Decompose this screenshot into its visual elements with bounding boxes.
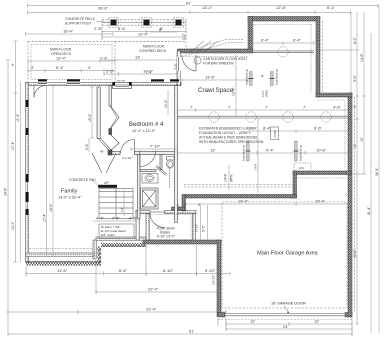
svg-text:24': 24' xyxy=(283,324,288,329)
svg-text:ESTIMATED ENGINEERED LUMBER: ESTIMATED ENGINEERED LUMBER xyxy=(199,127,257,131)
step left garage xyxy=(182,195,186,212)
svg-text:16'-4": 16'-4" xyxy=(63,29,74,34)
svg-text:15'-6": 15'-6" xyxy=(88,113,92,122)
dim row y43 xyxy=(253,42,315,44)
svg-text:Bedroom # 4: Bedroom # 4 xyxy=(129,122,164,128)
extension lines xyxy=(25,266,27,276)
wall y237 x96-146 (light) xyxy=(96,237,146,240)
load bearing beams xyxy=(247,72,298,162)
dim row y80 xyxy=(182,79,248,81)
left wall black dash segments xyxy=(26,100,28,215)
top wall family+bedroom (light) xyxy=(26,82,182,85)
svg-text:10'-4": 10'-4" xyxy=(315,199,326,204)
svg-text:2'-6": 2'-6" xyxy=(106,69,115,74)
svg-text:14'-8": 14'-8" xyxy=(360,53,364,62)
svg-text:11'-4": 11'-4" xyxy=(16,113,20,122)
porch left wall xyxy=(136,211,139,241)
svg-text:23'-4": 23'-4" xyxy=(146,307,157,312)
svg-text:12'-2" x 12'-0": 12'-2" x 12'-0" xyxy=(132,129,156,133)
family bottom wall (light) xyxy=(26,253,97,256)
sink vanity xyxy=(142,174,158,184)
svg-text:CANTILEVER FLOOR JOIST: CANTILEVER FLOOR JOIST xyxy=(203,57,247,61)
svg-text:13'-10": 13'-10" xyxy=(212,274,216,285)
inner dashed outline xyxy=(222,202,347,308)
svg-text:12': 12' xyxy=(250,319,255,324)
svg-text:6'-4": 6'-4" xyxy=(56,65,65,70)
svg-text:4': 4' xyxy=(88,65,91,70)
row 23'-4" xyxy=(8,311,226,313)
shelter left wall xyxy=(146,214,149,241)
concrete hatch bands xyxy=(26,243,146,266)
step wall y171 xyxy=(293,171,351,175)
dim row y110 xyxy=(178,109,352,111)
windows (white gap + bar) xyxy=(26,57,181,209)
left wall family (light) xyxy=(26,82,29,262)
svg-text:3'-2": 3'-2" xyxy=(182,32,186,40)
svg-text:UP: UP xyxy=(104,181,109,185)
svg-text:17'-4": 17'-4" xyxy=(11,141,15,150)
svg-text:16' GARAGE DOOR: 16' GARAGE DOOR xyxy=(271,302,306,306)
garage left wall xyxy=(217,240,221,317)
svg-text:PLBR: PLBR xyxy=(273,130,277,137)
svg-text:FOUNDATION LAYOUT - VERIFY: FOUNDATION LAYOUT - VERIFY xyxy=(199,131,251,135)
dotted inner offsets xyxy=(254,24,314,26)
svg-text:4': 4' xyxy=(353,105,357,108)
svg-text:16'-6": 16'-6" xyxy=(49,203,53,212)
svg-text:7': 7' xyxy=(303,105,306,110)
covered deck outline xyxy=(102,19,186,21)
support post 1 xyxy=(111,20,117,26)
wall y93 x316-352 xyxy=(316,93,352,97)
wall x137.5 stairs/bath xyxy=(138,155,141,220)
svg-text:MAIN FLOOR: MAIN FLOOR xyxy=(50,48,72,52)
svg-text:15': 15' xyxy=(360,137,364,142)
svg-text:6'-10" x 5'-2": 6'-10" x 5'-2" xyxy=(157,235,175,239)
svg-text:10'-6": 10'-6" xyxy=(316,148,327,153)
svg-text:12': 12' xyxy=(314,319,319,324)
svg-text:9PW: 9PW xyxy=(230,174,234,182)
svg-text:12'-2": 12'-2" xyxy=(164,99,168,108)
svg-text:7': 7' xyxy=(190,105,193,110)
bath angled wall xyxy=(156,167,166,175)
svg-text:load bearing: load bearing xyxy=(299,145,303,161)
svg-text:2': 2' xyxy=(184,202,187,207)
svg-text:3'-6": 3'-6" xyxy=(120,207,124,212)
svg-text:6'-4": 6'-4" xyxy=(261,38,270,43)
covered deck dims xyxy=(102,31,186,33)
svg-text:Main Floor Garage Area: Main Floor Garage Area xyxy=(257,251,319,257)
svg-text:CONCRETE PAD: CONCRETE PAD xyxy=(69,178,96,182)
porch door xyxy=(150,211,165,213)
svg-text:9'-6": 9'-6" xyxy=(314,126,323,131)
vert dim x258 xyxy=(257,118,259,193)
crawl box right wall xyxy=(316,17,320,98)
svg-text:4'-6": 4'-6" xyxy=(129,216,138,221)
svg-text:9'-4": 9'-4" xyxy=(266,148,275,153)
support post 2 xyxy=(144,20,150,26)
svg-text:4'-6": 4'-6" xyxy=(112,216,121,221)
wall x177 y51-85 (light) xyxy=(177,51,180,86)
svg-text:1'-4": 1'-4" xyxy=(146,71,152,75)
main beam y117 xyxy=(178,115,352,117)
piers xyxy=(209,112,219,122)
svg-text:6'-4": 6'-4" xyxy=(293,38,302,43)
svg-text:14'-8": 14'-8" xyxy=(254,163,258,170)
bedroom window box xyxy=(113,82,132,88)
svg-text:13'-0" x 32'-4": 13'-0" x 32'-4" xyxy=(58,196,82,200)
svg-text:load bearing: load bearing xyxy=(242,145,246,161)
svg-text:12'-4": 12'-4" xyxy=(138,32,149,37)
svg-text:6': 6' xyxy=(159,27,162,32)
svg-text:7': 7' xyxy=(228,105,231,110)
garage right wall xyxy=(348,93,352,317)
svg-text:13'-6": 13'-6" xyxy=(205,75,216,80)
bedroom left wall segments xyxy=(109,86,112,107)
cantilever note xyxy=(194,57,248,66)
svg-text:34'-8": 34'-8" xyxy=(4,187,8,196)
bath divider x160 xyxy=(160,155,162,170)
svg-text:SUPPORT POST: SUPPORT POST xyxy=(65,22,91,26)
svg-text:7': 7' xyxy=(265,105,268,110)
svg-text:4'-6": 4'-6" xyxy=(333,105,342,110)
svg-text:load bearing: load bearing xyxy=(275,69,279,85)
garage door opening xyxy=(225,312,345,314)
bedroom bottom wall xyxy=(112,152,120,155)
svg-text:2'-8": 2'-8" xyxy=(94,26,103,31)
row 12' 12' xyxy=(226,323,352,325)
support post 3 xyxy=(176,20,182,26)
svg-text:6'-4": 6'-4" xyxy=(327,5,336,10)
dim 16'-4" xyxy=(26,33,114,35)
svg-text:7'-10": 7'-10" xyxy=(150,144,161,149)
dim 61' top xyxy=(28,5,186,7)
covered deck lower dims xyxy=(102,59,177,61)
svg-text:A/C: A/C xyxy=(299,166,305,170)
svg-text:8'-6": 8'-6" xyxy=(119,268,128,273)
bedroom entry door xyxy=(134,140,136,154)
svg-text:116" reach: 116" reach xyxy=(101,233,116,237)
svg-text:12'-2": 12'-2" xyxy=(261,90,265,97)
closet bifold 2 xyxy=(111,135,120,151)
row 24' xyxy=(226,328,352,330)
interior vertical dim lines xyxy=(46,86,48,257)
stairs note xyxy=(99,224,134,239)
open deck dims xyxy=(28,60,115,62)
svg-text:3': 3' xyxy=(31,65,34,70)
dim row 28'-6" / 13'-4" / 12'-6" / 6'-4" xyxy=(28,12,351,14)
step wall x93 (light) xyxy=(93,240,96,259)
svg-text:13'-6": 13'-6" xyxy=(57,268,68,273)
garage bottom wall corners xyxy=(218,313,225,318)
svg-text:12'-6": 12'-6" xyxy=(232,87,236,96)
step vert x293 xyxy=(293,171,297,198)
svg-text:MAIN FLOOR: MAIN FLOOR xyxy=(143,45,165,49)
crawl access door under bay xyxy=(195,55,197,71)
svg-text:22'-4": 22'-4" xyxy=(148,287,159,292)
svg-text:28'-6": 28'-6" xyxy=(98,6,109,11)
svg-text:COVERED DECK: COVERED DECK xyxy=(139,49,167,53)
bath divider y169.5 xyxy=(140,170,156,172)
svg-text:41'-4": 41'-4" xyxy=(367,206,371,215)
svg-text:CONCRETE PAD &: CONCRETE PAD & xyxy=(65,17,96,21)
svg-text:61': 61' xyxy=(186,1,191,6)
svg-text:8'-6": 8'-6" xyxy=(118,26,127,31)
A/C pad xyxy=(294,163,311,172)
svg-text:45°: 45° xyxy=(100,150,104,154)
family double doors xyxy=(92,153,102,173)
row 22'-4" xyxy=(96,291,218,293)
concrete pad black bar xyxy=(98,185,117,188)
closet wall x97 family side xyxy=(97,87,100,139)
left margin vertical dims xyxy=(7,60,9,334)
PLBR box xyxy=(271,127,279,140)
shelter bottom wall (dark footing) xyxy=(143,240,221,244)
svg-text:5'-6": 5'-6" xyxy=(85,142,89,150)
svg-text:FOR BAY WINDOW: FOR BAY WINDOW xyxy=(203,62,234,66)
open deck outline xyxy=(28,40,186,42)
pier circle top xyxy=(278,47,288,57)
dim row y74 xyxy=(103,73,105,75)
deck ledger black dashes above top wall xyxy=(38,79,179,81)
svg-text:5'-10": 5'-10" xyxy=(195,223,199,232)
bath door xyxy=(139,151,141,167)
svg-text:12'-6": 12'-6" xyxy=(276,5,287,10)
svg-text:WITH MANUFACTURES SPECIFICATIO: WITH MANUFACTURES SPECIFICATION xyxy=(199,140,264,144)
porch top wall xyxy=(136,211,150,214)
shelter right wall xyxy=(193,214,196,241)
vert dim 12'-6" xyxy=(235,55,237,117)
row 61' bottom xyxy=(8,333,352,335)
svg-text:56'-4": 56'-4" xyxy=(375,167,379,176)
svg-text:4': 4' xyxy=(261,74,264,79)
crawl box top wall xyxy=(248,17,318,22)
crawl box left wall xyxy=(248,17,253,53)
beam top x252-314 xyxy=(253,50,315,52)
svg-text:11': 11' xyxy=(353,143,357,148)
interior dim verticals bedroom xyxy=(167,90,169,115)
svg-text:Crawl Space: Crawl Space xyxy=(198,87,234,94)
svg-text:14'-8": 14'-8" xyxy=(224,173,228,182)
svg-text:8'-2": 8'-2" xyxy=(353,36,357,44)
wall x174.5 hall/crawl xyxy=(175,86,178,223)
row 13'-6" / 6'-6" / 8'-10" / 5'-10" xyxy=(26,273,230,275)
diagonal wall 45 deg xyxy=(98,138,111,153)
svg-text:ACTUAL BEAM & PIER DIMENSIONS: ACTUAL BEAM & PIER DIMENSIONS xyxy=(199,136,258,140)
svg-text:3'-6": 3'-6" xyxy=(93,251,97,257)
pocket door dashes xyxy=(169,167,171,188)
garage top wall xyxy=(184,195,297,199)
svg-text:19'-4": 19'-4" xyxy=(238,199,249,204)
svg-text:5'-10": 5'-10" xyxy=(205,268,216,273)
svg-text:12'-4": 12'-4" xyxy=(56,56,67,61)
svg-text:17'-4": 17'-4" xyxy=(43,213,47,222)
svg-text:9': 9' xyxy=(11,63,15,66)
svg-text:4'-4": 4'-4" xyxy=(96,216,105,221)
svg-text:9'-6": 9'-6" xyxy=(353,74,357,82)
dims under garage top wall xyxy=(184,203,351,205)
svg-text:load bearing: load bearing xyxy=(245,69,249,85)
svg-text:61': 61' xyxy=(189,329,194,334)
svg-text:26'-8": 26'-8" xyxy=(353,249,357,258)
svg-text:5040 SH: 5040 SH xyxy=(117,80,126,82)
bedroom closet bifold chevrons xyxy=(111,106,120,129)
svg-text:13': 13' xyxy=(210,148,215,153)
svg-text:Family: Family xyxy=(61,189,77,195)
dim row y131 xyxy=(248,130,351,132)
svg-text:13': 13' xyxy=(135,55,140,60)
wall y49 x177-252 xyxy=(178,49,253,53)
svg-text:4'-2 1/2": 4'-2 1/2" xyxy=(122,156,132,160)
svg-text:9'-2": 9'-2" xyxy=(202,224,206,232)
svg-text:13'-4": 13'-4" xyxy=(202,5,213,10)
svg-text:12'-2": 12'-2" xyxy=(11,221,15,230)
svg-text:8'-10": 8'-10" xyxy=(163,268,174,273)
dim row y153 xyxy=(178,152,352,154)
door family top-left xyxy=(33,86,35,98)
toilet xyxy=(167,157,175,161)
svg-text:5PWs: 5PWs xyxy=(265,89,269,97)
